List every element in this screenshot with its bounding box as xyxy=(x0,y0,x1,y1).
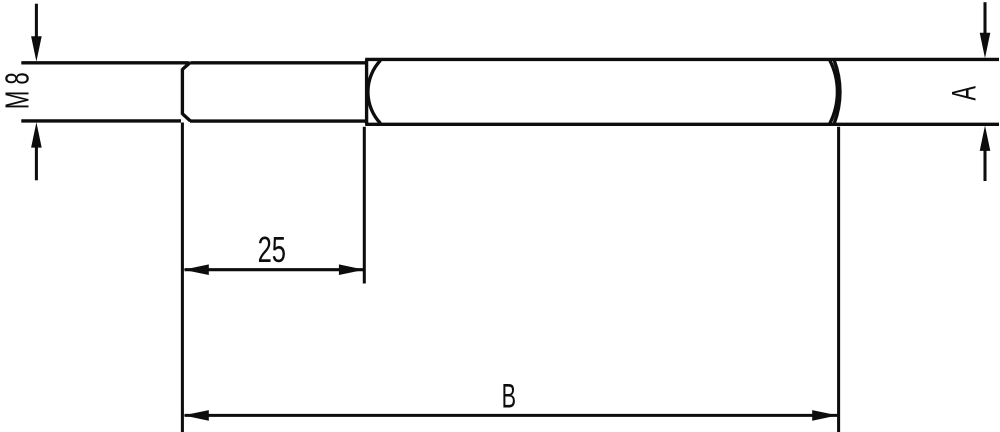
arrow M8 top xyxy=(31,36,42,61)
arrow 25 left xyxy=(183,264,208,275)
wire thread top line with M8 extension xyxy=(21,61,365,64)
svg-text:A: A xyxy=(946,85,984,100)
wire M8 dimension line lower xyxy=(35,146,38,180)
wire top chamfer xyxy=(182,62,190,69)
wire M8 dimension line upper xyxy=(35,4,38,38)
arrow 25 right xyxy=(339,264,364,275)
wire shank top line with A extension xyxy=(365,58,999,61)
wire 25 dimension line xyxy=(185,268,364,271)
svg-text:M 8: M 8 xyxy=(0,72,35,109)
arrow M8 bottom xyxy=(31,122,42,147)
wire A dimension line lower xyxy=(983,150,986,181)
arrow A bottom xyxy=(980,126,991,151)
wire B dimension line xyxy=(185,414,838,417)
arrow B left xyxy=(183,410,208,421)
wire bottom chamfer xyxy=(182,114,190,121)
arrow B right xyxy=(812,410,837,421)
wire thread bottom line with M8 extension xyxy=(21,119,365,123)
wire 25 right extension line xyxy=(363,127,366,284)
wire dome arc outer xyxy=(834,60,840,123)
wire left vertical extension line xyxy=(181,123,184,432)
wire shank left vertical edge xyxy=(365,59,368,124)
wire shank bottom line with A extension xyxy=(365,123,999,126)
wire B right extension line xyxy=(837,127,840,432)
wire thread runout arc xyxy=(368,60,381,123)
wire A dimension line upper xyxy=(983,2,986,35)
svg-text:25: 25 xyxy=(258,230,286,270)
arrow A top xyxy=(980,33,991,58)
svg-text:B: B xyxy=(502,378,516,416)
wire dome arc inner xyxy=(830,60,838,123)
wire left end vertical edge xyxy=(181,69,184,115)
